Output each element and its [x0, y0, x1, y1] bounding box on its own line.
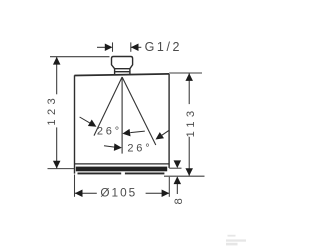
- svg-text:Ø105: Ø105: [100, 185, 137, 199]
- G1/2 right arrow: [131, 44, 139, 52]
- svg-text:26°: 26°: [97, 125, 122, 137]
- spray right fan line: [122, 77, 156, 145]
- dia 105 dimension extension lines: [75, 175, 170, 197]
- 123 bottom arrow: [53, 161, 61, 169]
- 123 top arrow: [53, 57, 61, 65]
- G1/2 dimension leaders: [97, 46, 141, 48]
- dia 105 left arrow: [75, 189, 83, 197]
- 123 dimension extension lines: [48, 57, 110, 169]
- spray centre line: [121, 77, 123, 154]
- svg-text:123: 123: [46, 94, 58, 126]
- svg-text:113: 113: [185, 107, 197, 138]
- 8 dimension stub lines: [176, 161, 178, 194]
- G1/2 connector nut: [112, 57, 133, 76]
- angle dim right arrow: [153, 132, 164, 143]
- angle dim left leader: [80, 117, 91, 123]
- angle dim right leader: [160, 130, 169, 136]
- wire: body top edge: [74, 74, 169, 76]
- spray face lower rim segments: [78, 172, 165, 174]
- angle dim centre-right arrow: [114, 143, 122, 151]
- 8 bottom arrow: [174, 176, 182, 184]
- shower head body outline: [74, 74, 169, 174]
- dia 105 right arrow: [162, 189, 170, 197]
- svg-text:G1/2: G1/2: [145, 40, 183, 54]
- 113 bottom arrow: [185, 168, 193, 176]
- angle dim centre-right leader: [104, 146, 115, 147]
- G1/2 dimension extension lines: [113, 42, 131, 51]
- angle dim left arrow: [88, 120, 98, 130]
- 113 dimension extension lines: [164, 73, 205, 176]
- G1/2 left arrow: [105, 44, 113, 52]
- 123 dimension line: [56, 57, 58, 168]
- spray face dark bar: [76, 167, 167, 172]
- angle dim centre-left leader: [130, 131, 145, 133]
- faint watermark logo: [226, 235, 246, 246]
- angle dim centre-left arrow: [122, 129, 131, 137]
- wire: body left edge: [74, 75, 76, 173]
- dia 105 dimension line: [75, 192, 169, 194]
- wire: body bottom line: [75, 163, 170, 165]
- svg-text:26°: 26°: [127, 142, 152, 154]
- wire: body right edge: [168, 74, 170, 168]
- svg-text:8: 8: [173, 198, 185, 204]
- spray left fan line: [94, 77, 122, 136]
- 8 dimension extension lines: [169, 167, 181, 169]
- 8 top arrow: [174, 160, 182, 168]
- 113 dimension line: [188, 74, 190, 176]
- 113 top arrow: [185, 73, 193, 81]
